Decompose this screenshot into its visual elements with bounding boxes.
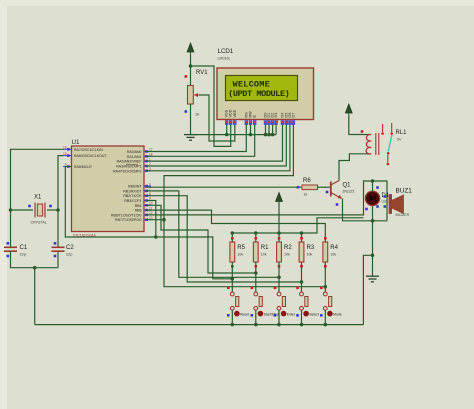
svg-text:D3: D3 — [274, 113, 278, 118]
node gnd bus VSS — [225, 133, 229, 137]
push button Reset — [227, 287, 249, 317]
wire bottom ground bus — [35, 324, 364, 326]
resistor R1 10k — [253, 237, 269, 268]
wire RA1 to LCD E — [145, 125, 255, 157]
wire R2 top lead — [278, 233, 280, 242]
svg-text:10k: 10k — [284, 253, 290, 257]
wire RB3 to button col1 — [145, 201, 232, 279]
svg-text:1k: 1k — [304, 193, 308, 197]
wire pullup bus riser — [232, 218, 363, 233]
wire RA4 to LCD D6 — [145, 125, 290, 171]
ground near RV1 — [184, 135, 197, 141]
svg-text:22p: 22p — [20, 253, 26, 257]
node gnd bus D1 — [267, 133, 271, 137]
node bus node Select — [300, 323, 304, 327]
svg-text:RB6/T1OSO/T1CKI: RB6/T1OSO/T1CKI — [111, 213, 142, 217]
resistor R4 10k — [323, 237, 339, 268]
svg-text:U1: U1 — [72, 139, 80, 146]
svg-text:WELCOME: WELCOME — [233, 79, 271, 89]
svg-text:2N2222: 2N2222 — [343, 190, 355, 194]
wire rail to ground — [372, 255, 374, 276]
svg-text:10k: 10k — [261, 253, 267, 257]
svg-text:LCD1: LCD1 — [218, 48, 234, 55]
power symbol VCC arrow near RV1 — [187, 43, 194, 55]
svg-text:C2: C2 — [66, 245, 74, 251]
svg-text:RA0/AN0: RA0/AN0 — [127, 150, 142, 154]
wire RA0 to LCD RS — [145, 125, 246, 152]
svg-text:RA2/AN2/VREF: RA2/AN2/VREF — [117, 160, 142, 164]
wire LCD D1 to ground bus — [268, 125, 270, 135]
wire button Enter to bottom bus — [278, 310, 280, 324]
LED D1 LED-RED — [365, 186, 396, 210]
crystal X1 — [28, 195, 52, 225]
wire bottom bus riser to ground rail — [363, 255, 372, 324]
node feed node R2 — [277, 276, 281, 280]
wire LCD RW to ground bus — [250, 125, 252, 135]
svg-text:BUZ1: BUZ1 — [396, 188, 413, 195]
node bus node R3 — [300, 231, 304, 235]
node LED bottom node — [371, 219, 375, 223]
node bus node R1 — [254, 231, 258, 235]
svg-text:RB2/TX/CK: RB2/TX/CK — [123, 194, 142, 198]
wire R5 bottom to button — [231, 262, 233, 292]
node crystal-left rail junction — [9, 208, 13, 212]
wire RB7 stub to D7 net — [145, 219, 164, 221]
resistor R3 10k — [299, 237, 315, 268]
svg-text:R5: R5 — [237, 245, 245, 251]
wire arrow stem to bus — [278, 203, 280, 233]
svg-text:RA7/OSC1/CLKIN: RA7/OSC1/CLKIN — [74, 148, 103, 152]
wire LCD D3 to ground bus end — [275, 125, 277, 135]
node gnd bus D0 — [264, 133, 268, 137]
svg-text:Reset: Reset — [240, 313, 249, 317]
wire power to LCD VDD — [191, 66, 231, 146]
wire power to RV1 top — [190, 55, 192, 86]
svg-text:Select: Select — [309, 313, 318, 317]
wire OSC2 to crystal right rail — [58, 156, 63, 247]
resistor R2 10k — [277, 237, 293, 268]
wire RV1 bottom to ground — [190, 104, 192, 135]
node feed node R5 — [231, 277, 235, 281]
wire RV1 wiper to LCD VEE — [199, 95, 235, 141]
svg-text:R1: R1 — [261, 245, 269, 251]
wire RB1 to button col3 — [145, 191, 279, 277]
node bus node Enter — [277, 323, 281, 327]
svg-text:RB5: RB5 — [135, 209, 142, 213]
wire Q1 collector to relay coil — [339, 154, 367, 181]
resistor R5 10k — [230, 237, 246, 268]
node LED top node — [371, 179, 375, 183]
node bus node Start/Stop — [254, 323, 258, 327]
wire RA3 to LCD D5 — [145, 125, 286, 166]
node gnd bus D2 — [271, 133, 275, 137]
wire R2 bottom to button — [278, 262, 280, 292]
push button Enter — [274, 287, 296, 317]
wire R3 bottom to button — [301, 262, 303, 292]
node gnd bus RW — [249, 133, 253, 137]
svg-text:RB4: RB4 — [135, 204, 142, 208]
svg-text:16: 16 — [63, 146, 67, 150]
svg-text:RA5/MCLR: RA5/MCLR — [74, 165, 92, 169]
wire RB2 to button col4 — [145, 196, 302, 282]
wire C2 bottom lead — [57, 251, 59, 268]
potentiometer RV1 — [185, 70, 209, 117]
wire crystal left lead — [11, 209, 34, 211]
svg-text:10k: 10k — [237, 253, 243, 257]
node bus node Mode — [324, 323, 328, 327]
svg-text:Q1: Q1 — [343, 183, 352, 189]
svg-text:22p: 22p — [66, 253, 72, 257]
wire LED top lead — [372, 181, 374, 191]
svg-text:RV1: RV1 — [196, 70, 208, 76]
wire button Start/Stop to bottom bus — [255, 310, 257, 324]
wire RB5 to R4 top — [145, 210, 325, 242]
wire RB4 to button col2 — [145, 205, 256, 273]
svg-text:R4: R4 — [330, 245, 338, 251]
svg-text:Enter: Enter — [287, 313, 296, 317]
wire Q1 emitter to LED/buzzer bottom — [343, 199, 388, 221]
node crystal-right rail junction — [56, 208, 60, 212]
wire R6 to Q1 base — [318, 186, 331, 188]
wire caps bottom join — [11, 251, 59, 268]
svg-text:5V: 5V — [397, 138, 402, 142]
transistor Q1 2N2222 — [326, 181, 355, 206]
wire LCD ground bus — [191, 134, 277, 136]
svg-text:R3: R3 — [307, 245, 315, 251]
svg-text:10k: 10k — [330, 253, 336, 257]
svg-text:RB3/CCP1: RB3/CCP1 — [124, 199, 141, 203]
wire RA2 to LCD D4 — [145, 125, 283, 161]
push button Start/Stop — [251, 287, 279, 317]
ground right ground — [366, 276, 379, 282]
power symbol VCC arrow near RL1 — [345, 104, 352, 116]
wire button Reset to bottom bus — [231, 310, 233, 324]
wire LCD D7 route to button col5 — [164, 125, 325, 287]
wire RB6 to LED/buzzer top — [145, 181, 387, 221]
wire button Select to bottom bus — [301, 310, 303, 324]
wire power to relay coil top — [349, 116, 367, 135]
node bus node R5 — [231, 231, 235, 235]
svg-text:RA1/AN1: RA1/AN1 — [127, 155, 142, 159]
resistor R6 1k — [297, 178, 318, 197]
svg-text:15: 15 — [63, 152, 67, 156]
wire LCD VSS to ground bus — [226, 125, 228, 135]
svg-text:R6: R6 — [303, 178, 311, 184]
svg-text:LM016L: LM016L — [218, 57, 231, 61]
svg-text:RL1: RL1 — [396, 130, 408, 136]
svg-text:RB1/RX/DT: RB1/RX/DT — [123, 189, 142, 193]
svg-text:RB0/INT: RB0/INT — [128, 185, 142, 189]
power symbol VCC arrow button bus — [276, 193, 283, 205]
capacitor C2 22p — [52, 242, 75, 257]
node feed node R4 — [324, 285, 328, 289]
wire RB0 to R6 — [145, 186, 302, 188]
LCD display LCD1 LM016L — [217, 48, 314, 125]
svg-text:Mode: Mode — [333, 313, 342, 317]
wire OSC1 to crystal left rail — [11, 149, 64, 247]
svg-text:BUZZER: BUZZER — [396, 213, 410, 217]
node junction RV1/VDD branch — [189, 64, 193, 68]
node bottom join node — [33, 266, 37, 270]
wire R1 top lead — [255, 233, 257, 242]
wire button Mode to bottom bus — [324, 310, 326, 324]
wire drop to bottom bus — [34, 268, 36, 325]
node reset net junction — [154, 235, 158, 239]
push button Select — [296, 287, 319, 317]
wire R4 bottom to button — [324, 262, 326, 292]
wire MCLR under chip to reset net — [65, 167, 156, 238]
svg-text:VEE: VEE — [233, 109, 237, 117]
wire LED bottom lead / rail — [372, 206, 374, 256]
svg-text:RA3/AN3/CMP1: RA3/AN3/CMP1 — [116, 165, 141, 169]
wire LCD D0 to ground bus — [265, 125, 267, 135]
svg-text:RB7/T1OSI/PGD: RB7/T1OSI/PGD — [115, 218, 142, 222]
push button Mode — [320, 287, 342, 317]
svg-text:6: 6 — [149, 182, 151, 186]
wire R3 top lead — [301, 233, 303, 242]
svg-text:10k: 10k — [307, 253, 313, 257]
node bus node R2 — [277, 231, 281, 235]
svg-text:R2: R2 — [284, 245, 292, 251]
node RB7/D7 junction — [162, 218, 166, 222]
wire LCD D2 to ground bus — [272, 125, 274, 135]
svg-text:RA6/OSC2/CLKOUT: RA6/OSC2/CLKOUT — [74, 154, 107, 158]
svg-text:D7: D7 — [291, 113, 295, 118]
node bus node Reset — [231, 323, 235, 327]
node ground rail node — [371, 254, 375, 258]
wire R5 top lead — [231, 233, 233, 242]
svg-text:X1: X1 — [34, 195, 42, 201]
svg-text:(UPDT MODULE): (UPDT MODULE) — [228, 89, 289, 99]
svg-text:C1: C1 — [20, 245, 28, 251]
wire crystal right lead — [47, 209, 58, 211]
svg-text:1k: 1k — [195, 112, 199, 117]
svg-text:CRYSTAL: CRYSTAL — [31, 221, 47, 225]
node feed node R1 — [254, 271, 258, 275]
microcontroller U1 PIC16F628A — [63, 139, 153, 238]
buzzer BUZ1 — [384, 188, 413, 218]
relay RL1 5V — [361, 123, 407, 165]
svg-text:Start/Stop: Start/Stop — [264, 313, 279, 317]
capacitor C1 22p — [4, 242, 28, 257]
svg-text:RA4/T0CKI/CMP2: RA4/T0CKI/CMP2 — [113, 169, 141, 173]
wire R1 bottom to button — [255, 262, 257, 292]
node feed node R3 — [300, 280, 304, 284]
